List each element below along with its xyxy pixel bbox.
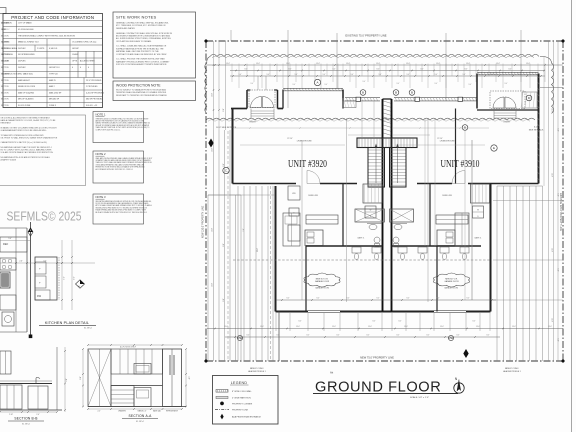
svg-text:2 UNITS: 2 UNITS (37, 48, 45, 50)
svg-text:12'-0": 12'-0" (551, 248, 553, 252)
svg-text:OTHER: OTHER (88, 61, 95, 63)
svg-text:10'-0": 10'-0" (346, 63, 350, 65)
svg-text:9'-0": 9'-0" (407, 298, 410, 300)
svg-text:BATH #1: BATH #1 (475, 237, 482, 240)
svg-text:8'-0": 8'-0" (289, 68, 292, 70)
svg-text:5'-4": 5'-4" (323, 74, 326, 76)
svg-text:SECTION: SECTION (1, 105, 9, 107)
svg-text:ZONE X: ZONE X (49, 105, 57, 107)
svg-text:ENTRY: ENTRY (250, 122, 257, 124)
svg-text:9'-4": 9'-4" (435, 83, 438, 85)
svg-text:10'-0": 10'-0" (260, 326, 264, 328)
svg-text:27'-10": 27'-10" (287, 138, 293, 140)
svg-text:W: W (370, 210, 372, 212)
svg-text:10'-0": 10'-0" (376, 63, 380, 65)
svg-text:NOTE 2: NOTE 2 (96, 152, 107, 156)
svg-text:2'-6": 2'-6" (19, 261, 23, 263)
svg-text:ON. PRIOR TO WALL ERECTION, SU: ON. PRIOR TO WALL ERECTION, SUBMIT SHOP … (1, 136, 58, 139)
svg-text:9'-4": 9'-4" (325, 84, 328, 86)
svg-text:NEW 8' CONC.: NEW 8' CONC. (250, 368, 265, 370)
svg-text:10'-0": 10'-0" (332, 326, 336, 328)
svg-text:SECTION: SECTION (1, 74, 9, 76)
svg-text:NEW 75.0' PROPERTY LINE: NEW 75.0' PROPERTY LINE (360, 355, 394, 359)
svg-text:SC. 3/8"=1': SC. 3/8"=1' (136, 421, 145, 423)
svg-text:9'-4": 9'-4" (469, 84, 472, 86)
svg-text:REF: REF (3, 242, 9, 246)
svg-text:SECTION: SECTION (1, 80, 9, 82)
svg-text:8'-0": 8'-0" (397, 335, 400, 337)
svg-text:5'-4": 5'-4" (351, 74, 354, 76)
svg-text:8'-0": 8'-0" (377, 68, 380, 70)
svg-text:KITCHEN PLAN DETAIL: KITCHEN PLAN DETAIL (45, 321, 89, 325)
svg-text:5'-4": 5'-4" (267, 74, 270, 76)
svg-text:WOOD SUBJECT TO DAMAGE FROM RO: WOOD SUBJECT TO DAMAGE FROM ROTS DECAY A… (116, 89, 167, 92)
svg-text:2'-0": 2'-0" (98, 411, 101, 413)
svg-text:SECTION: SECTION (1, 86, 9, 88)
svg-text:2 PROVIDED: 2 PROVIDED (86, 86, 98, 88)
svg-text:12'-0": 12'-0" (212, 228, 214, 232)
svg-text:9'-0": 9'-0" (243, 228, 245, 232)
svg-text:8'-0": 8'-0" (367, 335, 370, 337)
svg-text:FOR SOIL POISONING AGAINST TER: FOR SOIL POISONING AGAINST TERMITE INFES… (116, 63, 167, 66)
svg-text:MATERIAL SHALL BECOME PROPERTY: MATERIAL SHALL BECOME PROPERTY OF THE (116, 50, 159, 53)
svg-text:SEFMLS© 2025: SEFMLS© 2025 (7, 210, 82, 224)
svg-text:GROUP: GROUP (72, 48, 80, 50)
svg-text:NG MATERIAL WITH 40 SF AND EXT: NG MATERIAL WITH 40 SF AND EXTERIOR DOOR… (1, 156, 51, 159)
svg-text:4" WIDE PARTITION: 4" WIDE PARTITION (232, 397, 251, 400)
svg-text:9'-6": 9'-6" (74, 276, 76, 280)
svg-text:10'-0": 10'-0" (466, 63, 470, 65)
svg-text:6'-0": 6'-0" (557, 268, 559, 272)
svg-text:DINING RM: DINING RM (308, 195, 318, 197)
svg-text:8'-0": 8'-0" (247, 335, 250, 337)
svg-text:SCALE: 1/4" = 1'-0": SCALE: 1/4" = 1'-0" (410, 396, 429, 399)
svg-text:LEGEND: LEGEND (231, 381, 248, 385)
svg-text:10'-0": 10'-0" (368, 326, 372, 328)
svg-text:SC. 3/8"=1': SC. 3/8"=1' (22, 424, 31, 426)
svg-text:NOTE 3: NOTE 3 (96, 195, 107, 199)
svg-text:CONTRACTOR AND SHALL BE REMOVE: CONTRACTOR AND SHALL BE REMOVED BY HIS C… (116, 53, 167, 56)
svg-text:TYPE V-B: TYPE V-B (49, 74, 58, 76)
svg-text:OR PLANTING WHICH ARE TO REMAI: OR PLANTING WHICH ARE TO REMAIN. (116, 40, 152, 43)
svg-text:UNIT #3910: UNIT #3910 (441, 159, 480, 170)
svg-text:CITY OF MIAMI: CITY OF MIAMI (18, 22, 32, 25)
svg-text:SECTION: SECTION (1, 99, 9, 101)
svg-text:MAX HEIGHT: MAX HEIGHT (18, 79, 31, 82)
svg-text:DUPLEX: DUPLEX (18, 48, 26, 50)
svg-text:4,261 SF PROVIDED: 4,261 SF PROVIDED (86, 92, 105, 94)
svg-text:G.C. SHALL PROVIDE THE OWNER W: G.C. SHALL PROVIDE THE OWNER WITH A ONE … (116, 58, 165, 61)
svg-text:SECTION: SECTION (1, 36, 9, 38)
svg-text:PROPERTY CORNER: PROPERTY CORNER (232, 404, 253, 406)
svg-text:5'-4": 5'-4" (8, 238, 12, 240)
svg-text:12'-0": 12'-0" (212, 148, 214, 152)
svg-text:DUPLEX: DUPLEX (18, 61, 26, 63)
svg-text:10'-0": 10'-0" (296, 326, 300, 328)
svg-text:12'-0": 12'-0" (212, 93, 214, 97)
svg-text:RESISTANT: RESISTANT (1, 122, 12, 125)
svg-text:9'-4": 9'-4" (251, 83, 254, 85)
svg-text:B: B (464, 126, 466, 130)
svg-text:Ah: Ah (330, 371, 334, 375)
svg-text:GROUP R-3: GROUP R-3 (49, 67, 59, 69)
svg-text:SITE WORK NOTES: SITE WORK NOTES (116, 14, 156, 19)
svg-text:DINING RM: DINING RM (442, 195, 452, 197)
svg-text:8'-0": 8'-0" (299, 321, 302, 323)
svg-text:N.G.V.D. +13: N.G.V.D. +13 (86, 105, 97, 107)
svg-text:8'-0": 8'-0" (223, 243, 225, 247)
svg-text:ED TO COMPLY WITH: 2023 FBC 26: ED TO COMPLY WITH: 2023 FBC 2604.2. MANU… (1, 148, 52, 151)
svg-text:SECTION: SECTION (1, 92, 9, 94)
svg-text:10'-0": 10'-0" (496, 63, 500, 65)
svg-text:ADA REF PROFILE 1: ADA REF PROFILE 1 (248, 370, 265, 373)
svg-text:ADDRESS: ADDRESS (1, 22, 10, 25)
svg-text:B: B (411, 91, 413, 95)
svg-text:CLASS: CLASS (72, 53, 79, 56)
svg-text:8'-0": 8'-0" (337, 335, 340, 337)
svg-text:5'-4": 5'-4" (463, 74, 466, 76)
svg-text:TO MASONRY OPENING AS DOORS &: TO MASONRY OPENING AS DOORS & WINDOWS (1, 134, 45, 137)
svg-text:DUPLEX: DUPLEX (18, 67, 26, 69)
svg-text:8'-0": 8'-0" (473, 321, 476, 323)
svg-text:10'-0": 10'-0" (512, 326, 516, 328)
svg-text:6'-0": 6'-0" (557, 338, 559, 342)
svg-text:8'-0": 8'-0" (80, 376, 82, 380)
svg-text:GLASS/MANUFACTURER COULD BE US: GLASS/MANUFACTURER COULD BE USED AS WELL… (1, 129, 48, 132)
svg-text:8'-0": 8'-0" (427, 335, 430, 337)
svg-text:+: + (39, 281, 41, 285)
svg-text:GARAGE ROOM: GARAGE ROOM (315, 287, 329, 290)
svg-text:12'-0": 12'-0" (551, 318, 553, 322)
svg-text:2'-10": 2'-10" (9, 414, 13, 416)
svg-text:10'-0": 10'-0" (224, 326, 228, 328)
svg-text:E: E (493, 146, 495, 150)
svg-text:GENERAL CONTRACTOR SHALL EXECU: GENERAL CONTRACTOR SHALL EXECUTE ALL SIT… (116, 32, 173, 35)
svg-text:IS BASED ON TEST DOCUMENT WIND: IS BASED ON TEST DOCUMENT WINDOWS & DOOR… (1, 126, 58, 129)
svg-text:9'-4": 9'-4" (505, 83, 508, 85)
svg-text:6,340 S.F.: 6,340 S.F. (49, 48, 58, 50)
svg-text:GARAGE DOOR: GARAGE DOOR (315, 280, 330, 283)
svg-text:SC. 3/8"=1': SC. 3/8"=1' (84, 328, 93, 330)
svg-text:THE DESIGN SHALL COMPLY WITH T: THE DESIGN SHALL COMPLY WITH THE FBC 202… (18, 35, 76, 38)
svg-text:SECTION A-A: SECTION A-A (128, 414, 152, 418)
svg-text:6'-0": 6'-0" (534, 127, 538, 129)
svg-text:6'-0": 6'-0" (557, 193, 559, 197)
svg-text:MIN OF GLAZING: MIN OF GLAZING (18, 98, 34, 101)
svg-text:PROPERTY LINE: PROPERTY LINE (232, 410, 249, 412)
svg-text:EXISTING 75.0' PROPERTY LINE: EXISTING 75.0' PROPERTY LINE (345, 33, 386, 37)
svg-text:8'-0": 8'-0" (509, 68, 512, 70)
svg-text:OPTS: OPTS (72, 61, 78, 63)
svg-text:UNIT #3920: UNIT #3920 (288, 159, 327, 170)
svg-text:12'-0": 12'-0" (212, 283, 214, 287)
svg-text:21'-0": 21'-0" (257, 247, 259, 252)
svg-text:0: 0 (80, 67, 81, 69)
svg-text:8'-0": 8'-0" (373, 321, 376, 323)
svg-text:G.C. SHALL CLEAN AND HAUL ALL: G.C. SHALL CLEAN AND HAUL ALL SUBTERRANE… (116, 45, 167, 48)
svg-text:8'-0": 8'-0" (277, 335, 280, 337)
svg-text:ALL SURROUNDING STRUCTURES, OP: ALL SURROUNDING STRUCTURES, OPEN AREAS, … (116, 37, 171, 40)
svg-text:SECTION: SECTION (1, 67, 9, 69)
svg-text:8'-0": 8'-0" (223, 108, 225, 112)
svg-text:SECTION: SECTION (1, 48, 9, 50)
svg-text:8'-0": 8'-0" (487, 335, 490, 337)
svg-text:12'-0": 12'-0" (551, 173, 553, 177)
svg-text:10'-0": 10'-0" (526, 63, 530, 65)
svg-text:MIAMI 21 ZONING T3-O: MIAMI 21 ZONING T3-O (18, 41, 39, 44)
svg-text:ENTRY: ENTRY (504, 122, 511, 124)
svg-text:8'-0": 8'-0" (307, 335, 310, 337)
svg-text:8'-0": 8'-0" (399, 321, 402, 323)
svg-text:RW: RW (238, 336, 243, 340)
svg-text:PROJECT AND CODE INFORMATION: PROJECT AND CODE INFORMATION (11, 15, 94, 20)
svg-text:10'-0": 10'-0" (404, 326, 408, 328)
svg-text:DEBRIS AND WATER.: DEBRIS AND WATER. (116, 27, 136, 30)
svg-text:MAX OF GLAZING: MAX OF GLAZING (18, 91, 35, 94)
svg-text:NEW 120.0' PROPERTY LINE: NEW 120.0' PROPERTY LINE (202, 205, 205, 238)
svg-text:MAX 2: MAX 2 (49, 85, 55, 88)
svg-text:SECTION B-B: SECTION B-B (14, 417, 38, 421)
svg-text:5'-4": 5'-4" (407, 74, 410, 76)
svg-text:5'-4": 5'-4" (435, 74, 438, 76)
svg-text:S GLASS OR SITE READILY ACCESS: S GLASS OR SITE READILY ACCESSIBLE FOR I… (1, 151, 54, 154)
svg-text:MAX 4,832 SF: MAX 4,832 SF (49, 91, 62, 94)
svg-text:RW: RW (449, 336, 454, 340)
svg-text:8'-0": 8'-0" (465, 68, 468, 70)
svg-text:3'-0": 3'-0" (66, 378, 68, 382)
svg-text:3'-0": 3'-0" (43, 261, 47, 263)
svg-text:SMOKE-DEVELOPED INDEX NOT TO E: SMOKE-DEVELOPED INDEX NOT TO EXCEED 450 … (96, 207, 147, 209)
svg-text:GARAGE ROOM: GARAGE ROOM (444, 287, 458, 290)
svg-text:10'-0": 10'-0" (256, 63, 260, 65)
svg-text:NO SPRINKLERED: NO SPRINKLERED (18, 54, 35, 56)
svg-text:NEW 8' CONC.: NEW 8' CONC. (505, 368, 520, 370)
svg-text:MAX 25: MAX 25 (49, 79, 56, 82)
svg-text:680 SF PROVIDED: 680 SF PROVIDED (86, 99, 103, 101)
svg-text:0: 0 (72, 67, 73, 69)
svg-text:NG MATERIAL LARGER THAN 7 SF M: NG MATERIAL LARGER THAN 7 SF MUST BE CAT… (1, 146, 52, 149)
svg-text:9'-4": 9'-4" (397, 83, 400, 85)
svg-text:LIVING ROOM: LIVING ROOM (297, 141, 312, 143)
svg-text:25'-0" PROVIDED: 25'-0" PROVIDED (86, 80, 102, 82)
svg-text:A: A (316, 81, 318, 85)
svg-text:27'-10": 27'-10" (437, 138, 443, 140)
svg-text:OR DOORS & ALL WINDOWS TO BE I: OR DOORS & ALL WINDOWS TO BE IMPACT RESI… (1, 117, 51, 120)
svg-text:9'-4": 9'-4" (363, 81, 366, 83)
svg-text:9'-0": 9'-0" (347, 298, 350, 300)
svg-text:TERMITES SHALL BE A NATURALLY: TERMITES SHALL BE A NATURALLY DURABLE SP… (116, 91, 167, 94)
svg-text:10'-0": 10'-0" (436, 63, 440, 65)
svg-text:ETC. TRENCHES, FOOTINGS, ETC.: ETC. TRENCHES, FOOTINGS, ETC. ENTIRELY F… (116, 25, 167, 27)
svg-text:RESISTANT TO TERMITES OR PRESE: RESISTANT TO TERMITES OR PRESERVATIVE-TR… (116, 94, 168, 97)
svg-text:NUMB OF FLOORS: NUMB OF FLOORS (18, 86, 36, 88)
svg-text:5'-4": 5'-4" (295, 74, 298, 76)
svg-text:WARRANTY FROM A LICENSED PEST: WARRANTY FROM A LICENSED PEST CONTROL CO… (116, 60, 170, 63)
svg-text:10'-0": 10'-0" (316, 63, 320, 65)
svg-text:A SAFETY GLASS: A SAFETY GLASS (1, 158, 17, 161)
svg-text:10'-0": 10'-0" (440, 326, 444, 328)
svg-text:EXISTING 120.0' PROPERTY LINE: EXISTING 120.0' PROPERTY LINE (559, 193, 562, 231)
svg-text:FLOOD ZONE: FLOOD ZONE (18, 105, 31, 107)
svg-text:BATH #1: BATH #1 (358, 237, 365, 240)
svg-text:8" WIDE C.M.U WALL: 8" WIDE C.M.U WALL (232, 390, 253, 393)
svg-text:0: 0 (88, 67, 89, 69)
svg-text:01-3114-034-0000: 01-3114-034-0000 (18, 29, 33, 31)
svg-text:GENERAL CONTRACTOR SHALL KEEP: GENERAL CONTRACTOR SHALL KEEP ALL EXCAVA… (116, 22, 169, 25)
svg-text:B: B (362, 91, 364, 95)
svg-text:SECTION: SECTION (1, 42, 9, 44)
svg-text:10'-0": 10'-0" (476, 326, 480, 328)
svg-text:8'-0": 8'-0" (223, 163, 225, 167)
svg-text:6'-0": 6'-0" (557, 128, 559, 132)
svg-text:B: B (395, 91, 397, 95)
svg-text:8'-0": 8'-0" (223, 298, 225, 302)
svg-text:10'-0": 10'-0" (406, 63, 410, 65)
svg-text:ADA PEDESTRIAN ENTRANCE: ADA PEDESTRIAN ENTRANCE (232, 416, 262, 419)
svg-text:FOLIO: FOLIO (1, 29, 7, 31)
svg-text:SURFACE MATERIALS FROM THE SIT: SURFACE MATERIALS FROM THE SITE AND ALL … (116, 47, 164, 50)
svg-text:ADA REF PROFILE 1: ADA REF PROFILE 1 (503, 370, 520, 373)
svg-text:9'-4": 9'-4" (293, 84, 296, 86)
svg-text:SIDE SETBACK: SIDE SETBACK (529, 129, 544, 132)
svg-text:LIVING ROOM: LIVING ROOM (440, 141, 455, 143)
svg-text:CHARACTERISTIC & FACTOR (%) or: CHARACTERISTIC & FACTOR (%) or (.30 SHGC… (1, 141, 48, 144)
svg-text:9'-0": 9'-0" (317, 298, 320, 300)
svg-text:W: W (477, 210, 479, 212)
svg-text:COMPLY WITH 2023 FBC 2104.1.1.: COMPLY WITH 2023 FBC 2104.1.1. (96, 129, 122, 131)
svg-text:10'-0": 10'-0" (548, 326, 552, 328)
svg-text:AN ORDERLY MANNER WITH CONSIDE: AN ORDERLY MANNER WITH CONSIDERATION TO … (116, 34, 171, 37)
svg-text:9'-0": 9'-0" (437, 298, 440, 300)
svg-text:+: + (39, 267, 41, 271)
svg-text:9'-0": 9'-0" (287, 298, 290, 300)
svg-text:HAVE A CHARACTERISTIC COLOUR,: HAVE A CHARACTERISTIC COLOUR, GLASS TINT… (1, 119, 57, 122)
svg-text:8'-0": 8'-0" (245, 68, 248, 70)
svg-text:WOOD PROTECTION NOTE: WOOD PROTECTION NOTE (116, 84, 161, 88)
svg-text:SECTION: SECTION (1, 54, 9, 56)
svg-text:OCCUPANCY (FBC CH.3-&): OCCUPANCY (FBC CH.3-&) (72, 41, 97, 44)
svg-text:7'-6": 7'-6" (64, 276, 66, 280)
svg-text:3'-0": 3'-0" (188, 376, 190, 380)
svg-text:MIN 482 SF: MIN 482 SF (49, 99, 60, 101)
svg-text:5'-4": 5'-4" (379, 74, 382, 76)
svg-text:12'-0": 12'-0" (551, 108, 553, 112)
svg-text:9'-0": 9'-0" (377, 298, 380, 300)
svg-text:GARAGE DOOR: GARAGE DOOR (444, 280, 459, 283)
svg-text:SECTION: SECTION (1, 61, 9, 63)
svg-text:10'-0": 10'-0" (286, 63, 290, 65)
svg-text:8'-0": 8'-0" (421, 68, 424, 70)
svg-text:8'-0": 8'-0" (457, 335, 460, 337)
svg-text:NOTE 1: NOTE 1 (96, 113, 107, 117)
svg-text:9'-0": 9'-0" (467, 298, 470, 300)
svg-text:10'-0": 10'-0" (226, 63, 230, 65)
